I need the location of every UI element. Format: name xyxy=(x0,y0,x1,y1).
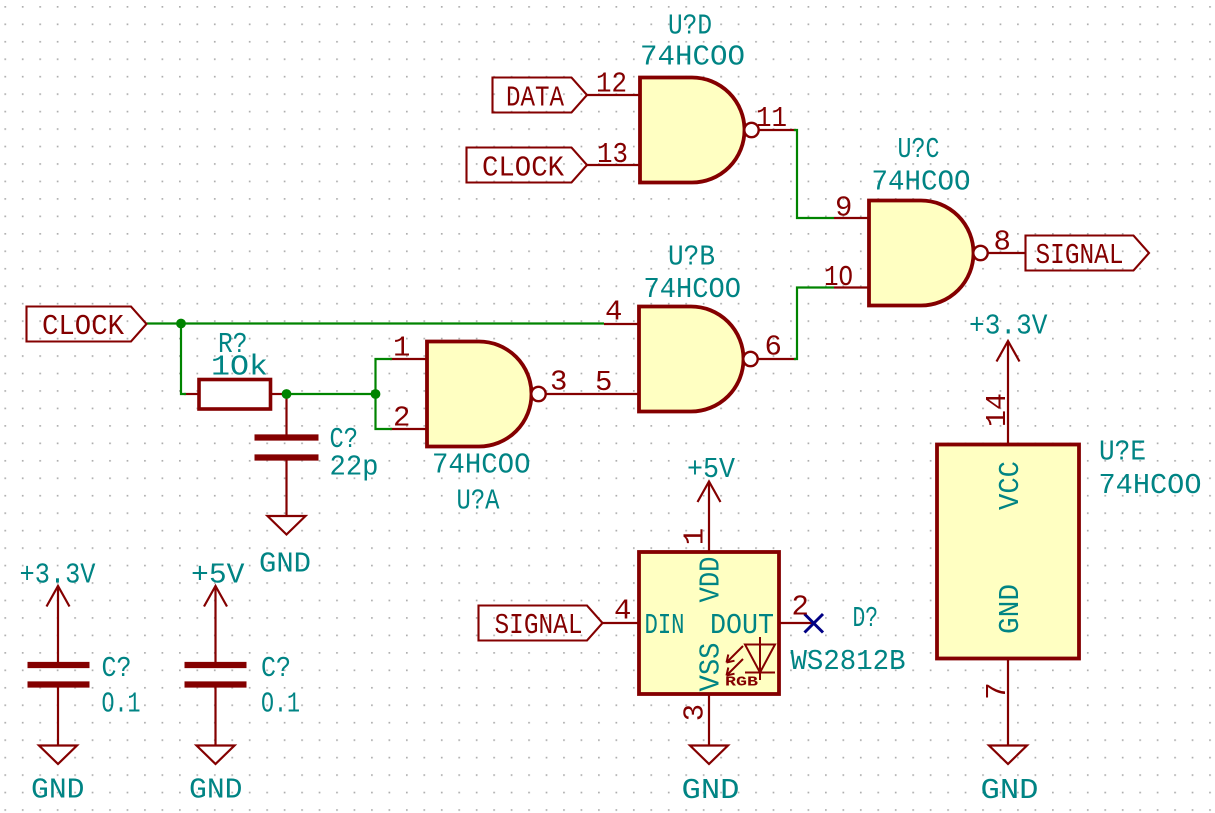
pin 10 stub U?C xyxy=(834,286,869,288)
svg-text:3: 3 xyxy=(550,366,567,399)
global label CLOCK (left) xyxy=(27,307,147,342)
pin 6 stub U?B output xyxy=(758,358,797,360)
wire CLOCK label to U?B pin 4 (long horizontal) xyxy=(147,322,605,324)
svg-text:U?B: U?B xyxy=(668,241,715,274)
svg-text:4: 4 xyxy=(605,296,622,329)
svg-text:GND: GND xyxy=(31,774,85,807)
svg-text:74HCOO: 74HCOO xyxy=(872,166,971,199)
power +3.3V left stem xyxy=(57,586,59,663)
pin 3 VSS stub WS2812B to ground xyxy=(708,694,710,746)
power +5V left stem xyxy=(214,586,216,663)
capacitor C0.1 left bottom stem xyxy=(57,687,59,746)
pin 4 stub U?B xyxy=(604,323,639,325)
bubble U?B output xyxy=(743,352,757,366)
svg-text:4: 4 xyxy=(614,595,631,628)
svg-text:+5V: +5V xyxy=(191,559,245,592)
pin 2 stub U?A xyxy=(390,428,427,430)
svg-text:U?A: U?A xyxy=(457,485,500,518)
svg-text:2: 2 xyxy=(792,591,809,624)
svg-text:GND: GND xyxy=(682,774,740,807)
GREEN WIRES xyxy=(147,130,835,429)
svg-text:+5V: +5V xyxy=(687,453,736,486)
capacitor C0.1 left plates xyxy=(28,665,90,685)
pin 14 VCC stub U?E with +3.3V stem xyxy=(1007,341,1009,445)
svg-text:13: 13 xyxy=(597,138,628,171)
svg-text:RGB: RGB xyxy=(725,675,759,691)
svg-text:C?: C? xyxy=(102,652,132,685)
IC U?LED (WS2812B D? body) xyxy=(639,552,779,694)
svg-text:+3.3V: +3.3V xyxy=(20,559,97,592)
svg-text:22p: 22p xyxy=(330,451,379,484)
svg-text:74HCOO: 74HCOO xyxy=(640,41,745,74)
svg-text:DOUT: DOUT xyxy=(710,609,774,642)
svg-text:11: 11 xyxy=(756,102,787,135)
svg-text:3: 3 xyxy=(679,704,712,721)
MAROON PIN/WIRE LINES xyxy=(58,95,1026,746)
global label SIGNAL (output from U?C) xyxy=(1026,236,1150,271)
svg-text:6: 6 xyxy=(765,331,782,364)
wire U?A pin3 to U?B pin5 xyxy=(546,393,640,395)
wire U?B pin 6 to U?C pin 10 xyxy=(794,288,834,360)
wire CLOCK label to U?D pin 13 xyxy=(587,164,640,166)
svg-text:VCC: VCC xyxy=(994,461,1027,510)
op-amp U?D (NAND gate U?D 74HC00 body) xyxy=(640,78,745,183)
op-amp U?B (NAND gate U?B 74HC00 body) xyxy=(639,307,744,412)
svg-text:1Ok: 1Ok xyxy=(211,351,268,384)
svg-text:8: 8 xyxy=(994,226,1011,259)
ground symbol under WS2812B xyxy=(690,746,728,765)
pin 8 stub U?C output to SIGNAL xyxy=(988,252,1026,254)
PIN NUMBERS (maroon) xyxy=(393,68,1014,722)
IC U?E (74HC00 power unit body) xyxy=(937,445,1079,659)
svg-text:SIGNAL: SIGNAL xyxy=(1036,239,1124,272)
wire junction to U?A pins 1 and 2 xyxy=(376,359,393,429)
svg-text:GND: GND xyxy=(994,584,1027,634)
LED graphic inside WS2812B xyxy=(727,637,776,680)
svg-text:U?E: U?E xyxy=(1099,436,1146,469)
svg-text:CLOCK: CLOCK xyxy=(482,151,565,184)
svg-text:WS2812B: WS2812B xyxy=(791,645,906,678)
capacitor C0.1 right bottom stem xyxy=(214,687,216,746)
pin 1 stub U?A xyxy=(390,358,427,360)
svg-text:7: 7 xyxy=(981,682,1014,699)
svg-text:U?D: U?D xyxy=(668,10,712,43)
svg-text:CLOCK: CLOCK xyxy=(42,310,125,343)
wire SIGNAL label to WS2812B DIN pin 4 xyxy=(603,622,640,624)
svg-text:74HCOO: 74HCOO xyxy=(644,273,742,306)
bubble U?D output xyxy=(744,123,758,137)
op-amp U?A (NAND gate U?A 74HC00 body) xyxy=(427,342,532,447)
svg-text:U?C: U?C xyxy=(898,133,940,166)
op-amp U?C (NAND gate U?C 74HC00 body) xyxy=(869,201,974,306)
svg-text:D?: D? xyxy=(853,602,879,635)
svg-text:2: 2 xyxy=(393,402,410,435)
svg-text:GND: GND xyxy=(189,774,243,807)
svg-text:GND: GND xyxy=(259,548,311,581)
capacitor C22p plates xyxy=(255,438,319,458)
global label DATA xyxy=(493,78,588,113)
svg-text:74HCOO: 74HCOO xyxy=(432,449,531,482)
svg-text:C?: C? xyxy=(261,652,291,685)
power arrow +5V above WS2812B xyxy=(698,482,721,503)
resistor R1 left pin xyxy=(184,393,199,395)
capacitor C22p bottom pin to ground xyxy=(285,460,287,517)
svg-text:12: 12 xyxy=(596,68,627,101)
no-connect X at DOUT pin 2 xyxy=(805,614,824,633)
pin 7 GND stub U?E to ground xyxy=(1007,659,1009,746)
wire junction to resistor R1 xyxy=(181,324,186,395)
wire DATA label to U?D pin 12 xyxy=(587,94,640,96)
capacitor C0.1 right plates xyxy=(185,665,247,685)
ground symbol under C0.1 right xyxy=(197,746,235,765)
inversion bubbles xyxy=(531,123,987,401)
power arrow +3.3V left xyxy=(47,586,70,607)
resistor R1 body xyxy=(199,380,271,410)
power arrow +3.3V above U?E xyxy=(997,341,1020,362)
bubble U?A output xyxy=(531,387,545,401)
svg-text:VDD: VDD xyxy=(695,557,728,603)
GATES xyxy=(427,78,1079,695)
svg-text:VSS: VSS xyxy=(695,643,728,692)
svg-text:DIN: DIN xyxy=(645,609,685,642)
junction node A (CLOCK net) xyxy=(176,319,186,329)
svg-text:O.1: O.1 xyxy=(102,688,141,721)
global label SIGNAL (input to WS2812B) xyxy=(479,606,603,641)
svg-text:5: 5 xyxy=(595,366,612,399)
global label CLOCK (at U?D pin 13) xyxy=(467,148,588,183)
ground symbol under C0.1 left xyxy=(39,746,77,765)
wire U?D pin 11 to U?C pin 9 xyxy=(794,130,834,218)
resistor R1 right pin xyxy=(271,393,285,395)
svg-text:14: 14 xyxy=(981,393,1014,427)
svg-text:+3.3V: +3.3V xyxy=(969,310,1048,343)
ground symbol under U?E xyxy=(989,746,1027,765)
svg-text:SIGNAL: SIGNAL xyxy=(495,609,583,642)
ground symbol under C22p xyxy=(268,516,306,535)
pin 1 VDD stub WS2812B with +5V stem xyxy=(708,482,710,553)
capacitor C22p top pin xyxy=(285,394,287,436)
svg-text:1: 1 xyxy=(393,332,410,365)
wire R1 to junction C xyxy=(282,393,376,395)
svg-text:1O: 1O xyxy=(824,261,853,294)
svg-text:9: 9 xyxy=(835,192,852,225)
power arrow +5V left xyxy=(204,586,227,607)
junction node B (RC net at resistor) xyxy=(282,389,292,399)
bubble U?C output xyxy=(973,246,987,260)
svg-text:O.1: O.1 xyxy=(261,688,300,721)
svg-text:74HCOO: 74HCOO xyxy=(1099,469,1202,502)
pin 2 DOUT stub WS2812B xyxy=(779,622,814,624)
svg-text:DATA: DATA xyxy=(506,81,564,114)
pin 9 stub U?C xyxy=(834,217,869,219)
pin 11 stub U?D output xyxy=(759,129,797,131)
junction node C (U?A input net) xyxy=(371,389,381,399)
svg-text:1: 1 xyxy=(679,528,712,545)
svg-text:GND: GND xyxy=(981,774,1039,807)
